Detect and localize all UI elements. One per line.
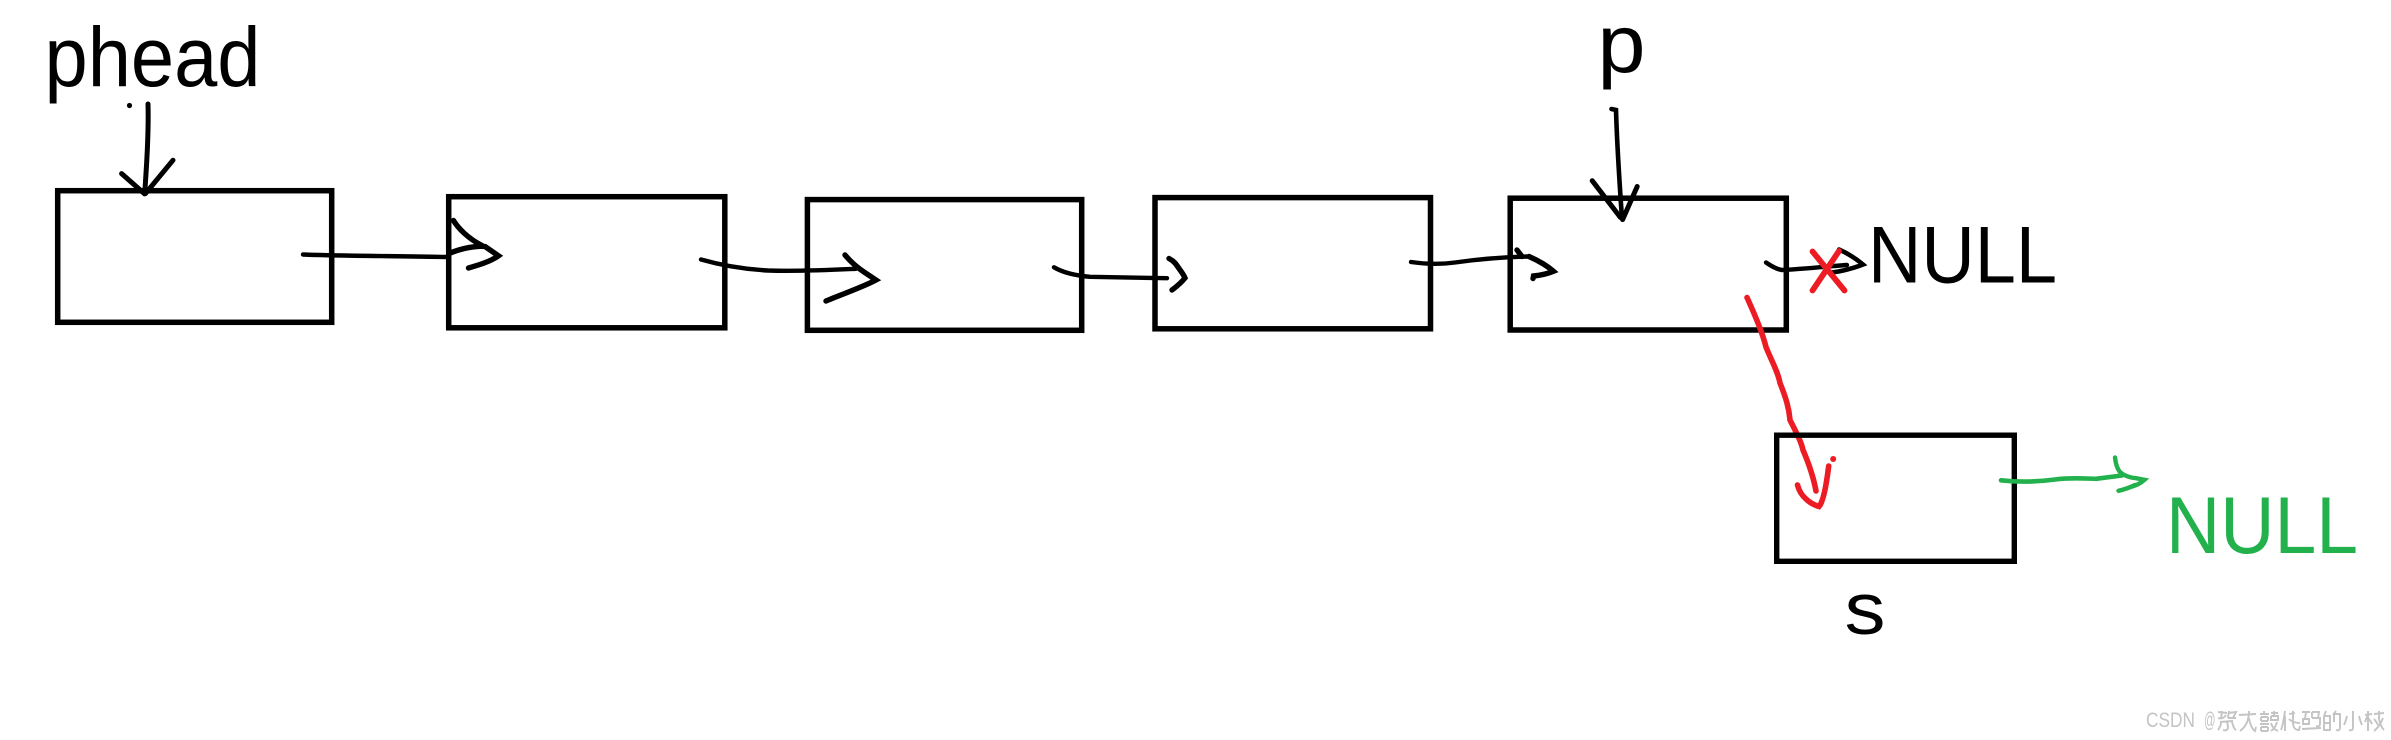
wire node2 to node3 xyxy=(701,260,856,271)
red dot xyxy=(1830,456,1836,462)
red X cross xyxy=(1813,251,1845,291)
svg-text:NULL: NULL xyxy=(2166,481,2358,571)
arrowhead into node3 xyxy=(826,255,876,301)
arrow p to node5 xyxy=(1592,109,1637,220)
svg-text:@: @ xyxy=(2204,708,2216,732)
char li xyxy=(2239,711,2256,731)
green wire node s to NULL xyxy=(2001,476,2122,482)
dot near phead arrow xyxy=(127,103,132,108)
arrowhead into node5 xyxy=(1517,250,1554,279)
char de xyxy=(2324,711,2340,730)
char yang xyxy=(2365,711,2384,731)
node1 box xyxy=(58,191,332,323)
char dai xyxy=(2281,711,2300,731)
watermark CJK strokes xyxy=(2218,711,2384,731)
char nu xyxy=(2218,711,2236,730)
wire node1 to node2 xyxy=(303,255,446,258)
red arrow node5 to node s xyxy=(1747,298,1829,507)
char qiao xyxy=(2260,711,2278,731)
svg-text:s: s xyxy=(1845,569,1886,650)
arrowhead into node2 xyxy=(449,221,499,269)
char xiao xyxy=(2344,711,2362,730)
svg-text:phead: phead xyxy=(45,10,261,104)
looped arrowhead before NULL xyxy=(1832,250,1863,273)
node3 box xyxy=(807,200,1081,331)
arrow phead to node1 xyxy=(122,104,173,194)
node s box xyxy=(1777,435,2015,561)
node2 box xyxy=(449,197,725,328)
green arrowhead xyxy=(2115,458,2145,491)
node4 box xyxy=(1155,198,1431,329)
svg-text:CSDN: CSDN xyxy=(2146,708,2195,732)
char ma xyxy=(2302,712,2321,729)
svg-text:p: p xyxy=(1598,0,1646,91)
arrowhead into node4 xyxy=(1169,259,1185,291)
svg-text:NULL: NULL xyxy=(1868,210,2057,300)
wire node5 toward NULL xyxy=(1766,263,1847,271)
node5 box xyxy=(1510,198,1786,330)
wire node3 to node4 xyxy=(1054,267,1167,278)
wire node4 to node5 xyxy=(1411,257,1529,264)
